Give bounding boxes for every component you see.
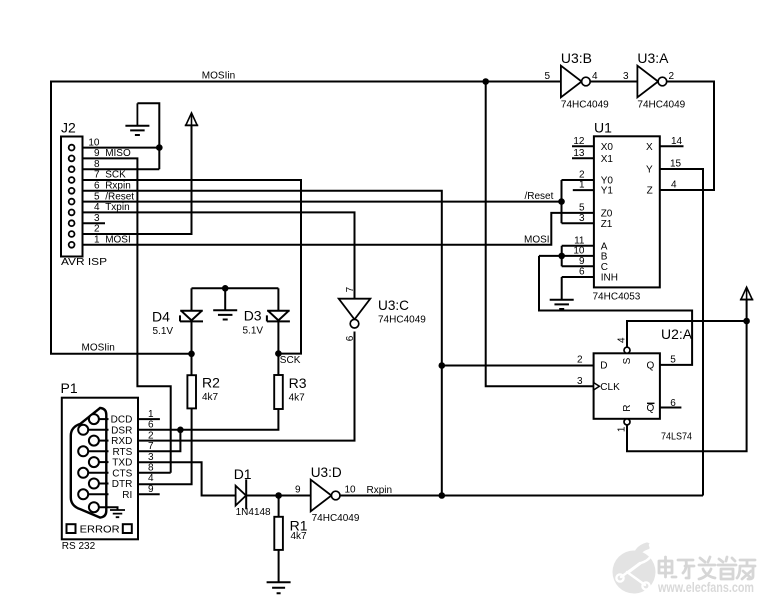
multiplexer U1 (594, 136, 660, 287)
svg-text:RI: RI (122, 490, 132, 501)
ground symbol (U1 INH) (550, 300, 574, 309)
connector P1 (DB9 RS232) (62, 398, 138, 540)
wire Rxpin (J2 pin6) riser (74, 191, 441, 496)
svg-text:J2: J2 (61, 120, 76, 136)
svg-text:U3:D: U3:D (311, 464, 342, 480)
U2:A pin names (600, 357, 654, 414)
wire P1 DTR to R2 (138, 408, 192, 484)
svg-text:DTR: DTR (112, 479, 133, 490)
junction /Reset (558, 198, 565, 205)
pin number 3 (U3:A in) (623, 71, 629, 82)
svg-text:3: 3 (148, 452, 154, 463)
diode D1 (236, 479, 247, 509)
pin number 10 (U3:D out) (345, 485, 357, 496)
label U3:A (637, 50, 669, 66)
svg-text:2: 2 (577, 355, 583, 366)
U2:A pin numbers (577, 337, 676, 432)
wire U1 A/B/C tie (539, 246, 594, 266)
svg-text:S: S (622, 357, 633, 364)
svg-text:7: 7 (94, 170, 100, 181)
junction A/B/C at pin B (558, 253, 565, 260)
ground symbol (D4/D3) (213, 288, 237, 319)
wire D3 cathode to R3 (277, 321, 279, 375)
label R3 (289, 375, 307, 391)
ERROR indicator (67, 524, 132, 535)
svg-text:R3: R3 (289, 375, 307, 391)
label P1 (61, 380, 78, 396)
pin number 6 (U3:C out) (345, 335, 356, 341)
value 4k7 (R3) (289, 393, 306, 404)
value 4k7 (R1) (291, 531, 308, 542)
junction S/R pull-up (743, 318, 750, 325)
pin number 7 (U3:C in) (345, 286, 356, 292)
inverter U3:D (311, 480, 340, 512)
svg-text:C: C (601, 262, 608, 273)
svg-text:74HC4049: 74HC4049 (312, 513, 360, 524)
label AVR ISP (61, 257, 107, 268)
junction MOSIin/CLK riser (482, 78, 489, 85)
svg-text:2: 2 (148, 430, 154, 441)
wire D4 top lead (191, 288, 193, 311)
svg-text:4k7: 4k7 (289, 393, 306, 404)
svg-text:74HC4053: 74HC4053 (593, 292, 641, 303)
svg-text:5: 5 (94, 191, 100, 202)
wire U1 Y (pin 15) to Rxpin line (660, 169, 703, 496)
svg-text:Q: Q (647, 361, 655, 372)
wire P1 DCD stub (138, 418, 160, 420)
svg-text:D: D (600, 361, 607, 372)
svg-text:U3:B: U3:B (561, 50, 592, 66)
net label Rxpin (367, 485, 393, 496)
label D4 (152, 308, 170, 324)
value 74HC4053 (593, 292, 641, 303)
wire U2:A Qbar stub (pin 6) (660, 407, 682, 409)
svg-text:3: 3 (94, 213, 100, 224)
svg-text:MOSIin: MOSIin (202, 71, 235, 82)
svg-text:10: 10 (573, 246, 585, 257)
inverter U3:A (637, 66, 666, 98)
zener diode D4 (180, 311, 203, 322)
svg-text:R2: R2 (202, 374, 220, 390)
junction R1 tap (275, 492, 282, 499)
label U2:A (661, 326, 693, 342)
label U3:C (378, 297, 409, 313)
svg-text:D3: D3 (244, 307, 262, 323)
wire J2 pin3 stub (74, 222, 105, 224)
svg-text:DCD: DCD (111, 415, 133, 426)
svg-text:4k7: 4k7 (202, 392, 219, 403)
U1 Y1 stub (pin 1) (573, 189, 594, 191)
svg-text:MOSI: MOSI (105, 235, 131, 246)
svg-text:12: 12 (573, 136, 585, 147)
svg-text:1: 1 (617, 426, 628, 432)
svg-text:RTS: RTS (112, 447, 132, 458)
svg-text:U3:A: U3:A (637, 50, 669, 66)
inverter U3:B (561, 66, 590, 98)
wire D3 top lead (277, 288, 279, 311)
svg-text:9: 9 (94, 148, 100, 159)
svg-text:8: 8 (94, 159, 100, 170)
wire CLK riser (MOSIin net down to U2:A CLK) (486, 82, 594, 387)
wire P1 TXD to D1 anode (138, 462, 236, 495)
pin number 9 (U3:D in) (295, 485, 301, 496)
svg-text:5: 5 (670, 355, 676, 366)
net label MOSI (524, 235, 550, 246)
svg-text:9: 9 (148, 484, 154, 495)
svg-text:X: X (646, 142, 653, 153)
wire MOSIin net (top line, left edge, stub to D4/R2) (51, 82, 561, 354)
svg-text:3: 3 (579, 213, 585, 224)
svg-text:4k7: 4k7 (291, 531, 308, 542)
svg-text:Z: Z (647, 186, 653, 197)
value 74HC4049 (U3:C) (378, 315, 426, 326)
svg-text:74LS74: 74LS74 (661, 431, 692, 442)
wire U3:B output to U3:A input (590, 81, 638, 83)
U1 left pin names (601, 142, 618, 284)
wire P1 DSR/RTS to R3 (138, 409, 278, 451)
svg-text:74HC4049: 74HC4049 (561, 100, 609, 111)
net label /Reset (525, 191, 554, 202)
junction D4-D3 link / ground (222, 285, 229, 292)
J2 pin numbers 10..1 (88, 137, 100, 245)
value 74LS74 (661, 431, 692, 442)
svg-text:8: 8 (148, 463, 154, 474)
svg-text:4: 4 (94, 202, 100, 213)
svg-text:6: 6 (579, 267, 585, 278)
zener diode D3 (267, 311, 290, 322)
svg-text:X0: X0 (601, 142, 614, 153)
svg-text:Y1: Y1 (601, 186, 614, 197)
svg-text:X1: X1 (601, 154, 614, 165)
svg-text:15: 15 (670, 159, 682, 170)
svg-text:4: 4 (617, 337, 628, 343)
wire P1 RI stub (138, 493, 160, 495)
wire U2:A R to VCC (627, 300, 747, 452)
inverter U3:C (339, 299, 371, 328)
svg-text:5.1V: 5.1V (153, 326, 174, 337)
wire U1 X0 stub (pin 12) (572, 145, 594, 147)
svg-text:B: B (601, 252, 608, 263)
junction Rxpin riser / Rxpin line (439, 492, 446, 499)
svg-text:10: 10 (88, 137, 100, 148)
svg-text:RXD: RXD (111, 436, 132, 447)
pin number 5 (U3:B in) (544, 71, 550, 82)
svg-text:www.elecfans.com: www.elecfans.com (657, 580, 754, 595)
svg-text:6: 6 (94, 181, 100, 192)
wire D1 cathode to U3:D input (246, 495, 311, 497)
svg-text:SCK: SCK (280, 355, 301, 366)
value 74HC4049 (U3:B) (561, 100, 609, 111)
svg-text:74HC4049: 74HC4049 (378, 315, 426, 326)
power arrow VCC (J2 pin2) (185, 113, 198, 125)
svg-text:U2:A: U2:A (661, 326, 693, 342)
svg-text:TXD: TXD (112, 458, 132, 469)
ground symbol (R1) (267, 582, 291, 593)
svg-text:MISO: MISO (105, 148, 131, 159)
junction SCK at D3/R3 (275, 350, 282, 357)
svg-text:9: 9 (579, 256, 585, 267)
wire /Reset (J2 pin5) to U1 Y0/Z1 (74, 180, 594, 223)
svg-text:1: 1 (148, 409, 154, 420)
wire J2 pin2 to VCC (74, 125, 191, 234)
svg-text:MOSIin: MOSIin (82, 343, 115, 354)
wire U2:A D input (442, 365, 594, 367)
value 74HC4049 (U3:D) (312, 513, 360, 524)
svg-text:U3:C: U3:C (378, 297, 409, 313)
label U1 (594, 120, 612, 136)
pin number 2 (U3:A out) (669, 71, 675, 82)
svg-text:U1: U1 (594, 120, 612, 136)
svg-text:3: 3 (623, 71, 629, 82)
net label MOSIin (left) (82, 343, 115, 354)
svg-text:ERROR: ERROR (80, 525, 120, 536)
svg-text:Q: Q (647, 403, 655, 414)
svg-text:SCK: SCK (105, 170, 126, 181)
connector J2 (61, 137, 83, 257)
svg-text:14: 14 (671, 136, 683, 147)
U1 right pin numbers (670, 136, 683, 191)
svg-text:4: 4 (592, 71, 598, 82)
label R1 (290, 517, 308, 533)
label R2 (202, 374, 220, 390)
svg-text:INH: INH (601, 273, 618, 284)
pin number 4 (U3:B out) (592, 71, 598, 82)
svg-text:D1: D1 (234, 466, 252, 482)
wire U1 X1 stub (pin 13) (572, 157, 594, 159)
junction J2 pin10/ground (156, 144, 163, 151)
junction Rxpin riser / U2:A D line (439, 362, 446, 369)
svg-text:CLK: CLK (600, 382, 620, 393)
svg-text:1: 1 (579, 180, 585, 191)
svg-text:5: 5 (544, 71, 550, 82)
svg-text:2: 2 (94, 224, 100, 235)
wire U1 X stub (pin 14) (660, 145, 684, 147)
net label SCK (280, 355, 301, 366)
svg-text:P1: P1 (61, 380, 78, 396)
svg-text:1N4148: 1N4148 (236, 507, 271, 518)
svg-text:1: 1 (94, 235, 100, 246)
net label MOSIin (top) (202, 71, 235, 82)
U1 left pin numbers (573, 136, 585, 278)
value 4k7 (R2) (202, 392, 219, 403)
wire U1 INH to ground (562, 277, 594, 299)
svg-text:Txpin: Txpin (105, 202, 129, 213)
wire D4-D3 top link (192, 287, 279, 289)
flip-flop U2:A (594, 347, 660, 425)
wire select net (U2:A Q to U1 A/B/C) (539, 256, 692, 365)
svg-text:CTS: CTS (112, 468, 132, 479)
resistor R1 (274, 517, 283, 550)
svg-text:3: 3 (577, 376, 583, 387)
wire R1 top lead (278, 496, 280, 517)
wire P1 RXD to U3:C output (138, 332, 355, 441)
svg-text:DSR: DSR (111, 425, 132, 436)
label D3 (244, 307, 262, 323)
P1 pin numbers (148, 409, 154, 495)
svg-text:2: 2 (669, 71, 675, 82)
wire P1 pin5 to ground (99, 507, 118, 509)
svg-text:/Reset: /Reset (525, 191, 554, 202)
junction DSR/RTS (177, 427, 184, 434)
U1 right pin names (646, 142, 653, 197)
svg-text:4: 4 (148, 473, 154, 484)
wire J2 pin10/pin8 to ground (74, 103, 159, 169)
label J2 (61, 120, 76, 136)
ground symbol (J2 top) (125, 103, 149, 135)
svg-text:MOSI: MOSI (524, 235, 550, 246)
svg-text:/Reset: /Reset (105, 191, 134, 202)
svg-text:6: 6 (345, 335, 356, 341)
svg-text:AVR ISP: AVR ISP (61, 257, 107, 268)
svg-text:RS 232: RS 232 (62, 541, 96, 552)
value 1N4148 (236, 507, 271, 518)
resistor R3 (274, 375, 283, 409)
ground symbol (P1 shell) (110, 510, 125, 517)
wire SCK (J2 pin7) to D3/R3 (74, 180, 301, 354)
wire R1 bottom lead (278, 550, 280, 582)
svg-text:Y: Y (646, 165, 653, 176)
J2 pin names (105, 148, 134, 245)
svg-text:Rxpin: Rxpin (105, 181, 131, 192)
wire U2:A S to VCC (627, 321, 747, 347)
P1 pin names (111, 415, 133, 501)
svg-text:5.1V: 5.1V (243, 326, 264, 337)
wire U3:A output to U1 pin Z (660, 82, 714, 191)
svg-text:Z1: Z1 (601, 219, 613, 230)
value 5.1V (D3) (243, 326, 264, 337)
label RS 232 (62, 541, 96, 552)
label D1 (234, 466, 252, 482)
svg-text:R: R (622, 404, 633, 411)
svg-text:4: 4 (671, 180, 677, 191)
svg-text:13: 13 (573, 148, 585, 159)
svg-text:74HC4049: 74HC4049 (637, 100, 685, 111)
wire Rxpin line (U3:D out to U1 Y riser) (340, 495, 703, 497)
wire MOSI (J2 pin1) to U1 Z0 (74, 213, 594, 245)
power arrow VCC (U2:A S/R) (740, 287, 753, 299)
svg-text:6: 6 (148, 420, 154, 431)
svg-text:D4: D4 (152, 308, 170, 324)
wire MISO (J2 pin9) to P1 CTS (74, 158, 170, 472)
svg-text:9: 9 (295, 485, 301, 496)
label U3:D (311, 464, 342, 480)
resistor R2 (187, 375, 196, 408)
wire D4 cathode to R2 (191, 321, 193, 375)
svg-text:7: 7 (345, 286, 356, 292)
junction MOSIin at D4/R2 (188, 351, 195, 358)
wire Txpin (J2 pin4) to U3:C input (74, 212, 354, 298)
svg-text:7: 7 (148, 441, 154, 452)
value 74HC4049 (U3:A) (637, 100, 685, 111)
value 5.1V (D4) (153, 326, 174, 337)
svg-text:Rxpin: Rxpin (367, 485, 393, 496)
svg-text:10: 10 (345, 485, 357, 496)
label U3:B (561, 50, 592, 66)
